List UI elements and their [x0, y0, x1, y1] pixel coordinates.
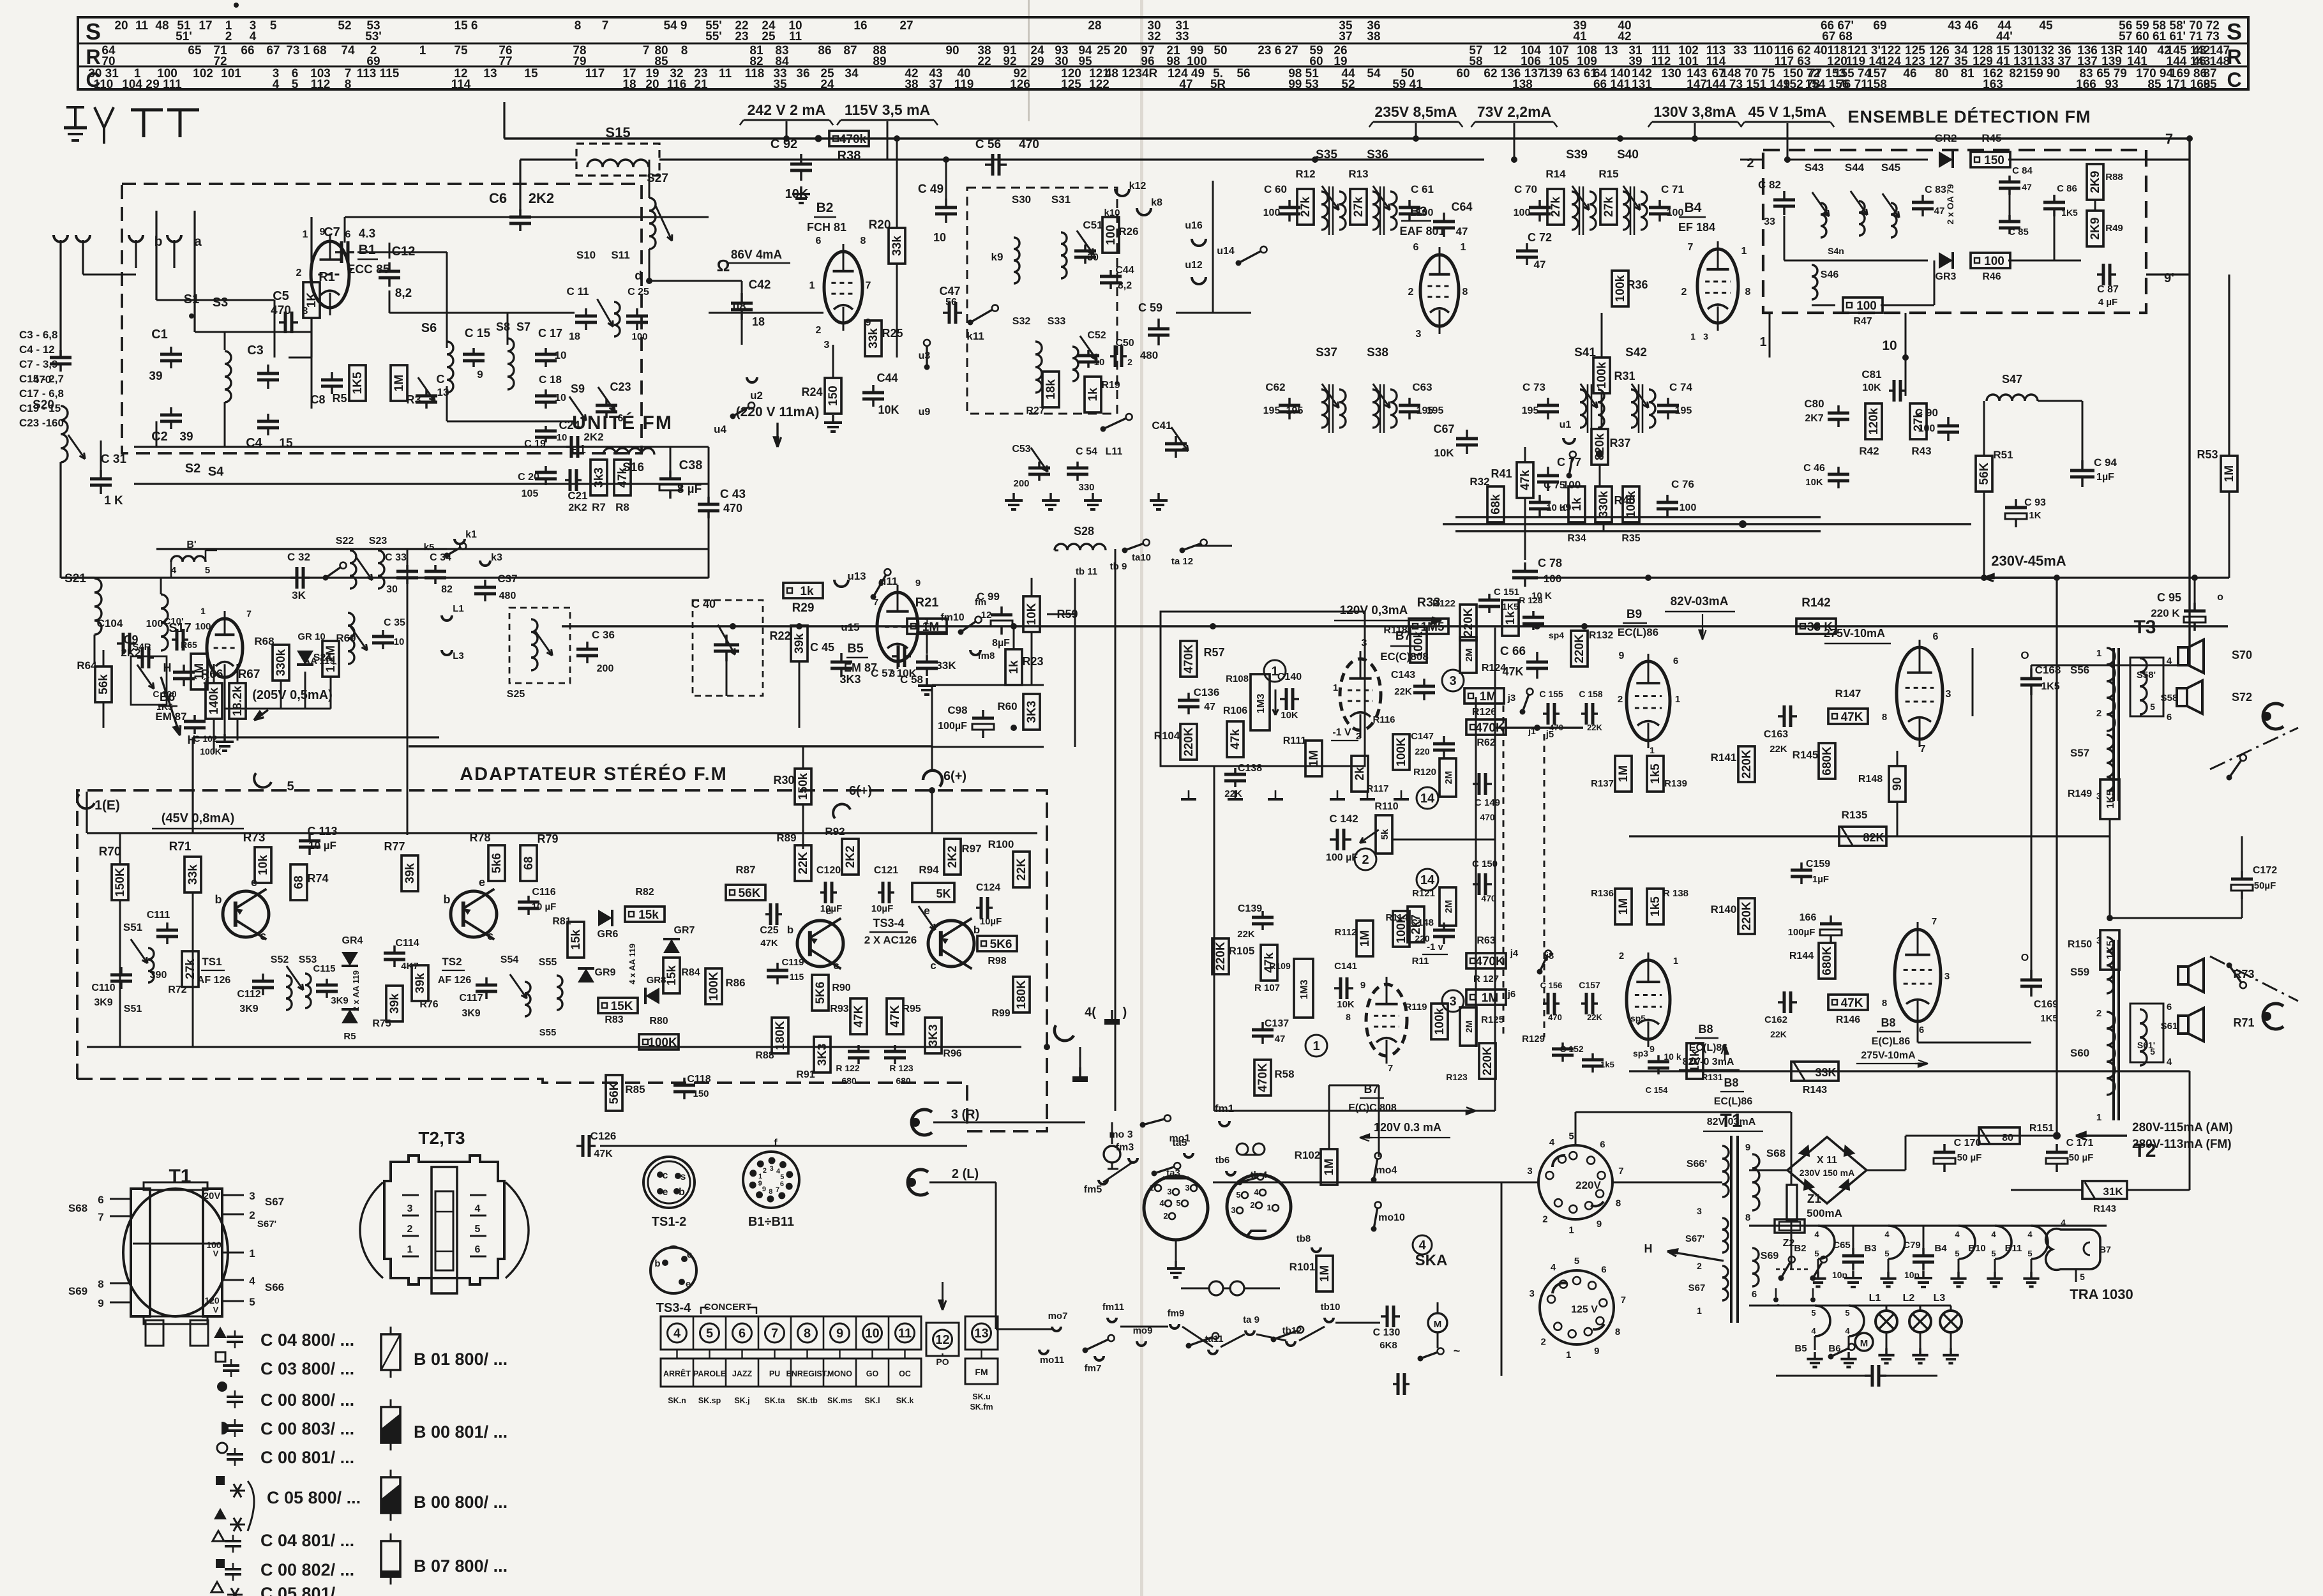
svg-text:2: 2 [225, 30, 232, 43]
svg-text:47: 47 [2022, 182, 2032, 192]
svg-text:46 148: 46 148 [2193, 55, 2230, 68]
svg-text:C 70: C 70 [1514, 183, 1537, 195]
svg-text:C3: C3 [247, 343, 264, 358]
svg-text:C 54: C 54 [1076, 446, 1097, 457]
svg-text:1K5: 1K5 [1502, 601, 1519, 612]
svg-text:1: 1 [1312, 1039, 1319, 1053]
svg-text:119 14: 119 14 [1846, 55, 1882, 68]
coil S24 [348, 613, 354, 664]
svg-text:R94: R94 [919, 864, 939, 876]
svg-text:7: 7 [771, 1327, 778, 1341]
svg-text:220K: 220K [1573, 634, 1586, 663]
cap C83 47 [1921, 195, 1924, 202]
svg-text:c: c [687, 1249, 692, 1260]
svg-text:41: 41 [1573, 30, 1587, 43]
svg-text:105: 105 [1549, 55, 1569, 68]
svg-text:37: 37 [929, 78, 942, 91]
svg-text:18: 18 [569, 331, 580, 342]
svg-text:mo4: mo4 [1376, 1165, 1397, 1176]
svg-text:EC(L)86: EC(L)86 [1714, 1096, 1753, 1107]
svg-text:S57: S57 [2070, 747, 2089, 759]
svg-text:330k: 330k [274, 649, 288, 676]
svg-text:12: 12 [981, 610, 992, 621]
resistor R43 27k [1910, 403, 1927, 439]
svg-text:7: 7 [1618, 1166, 1623, 1177]
svg-text:3 (R): 3 (R) [951, 1108, 979, 1122]
svg-text:3: 3 [1449, 995, 1456, 1009]
svg-text:9: 9 [1360, 980, 1365, 991]
cap C46 10K [1837, 467, 1840, 474]
svg-text:S28: S28 [1074, 525, 1094, 538]
svg-text:100k: 100k [1614, 275, 1627, 302]
svg-text:1: 1 [1673, 956, 1678, 967]
resistor R83 15K [598, 998, 638, 1013]
svg-text:3: 3 [770, 1165, 774, 1173]
pot R94 5K [912, 883, 954, 902]
svg-text:2K9: 2K9 [2089, 218, 2102, 240]
svg-text:B11: B11 [2005, 1243, 2022, 1254]
svg-text:36: 36 [796, 67, 809, 80]
svg-text:27k: 27k [184, 959, 197, 979]
svg-text:R64: R64 [77, 659, 97, 672]
svg-text:R142: R142 [1801, 596, 1830, 610]
capacitor C49 10 [945, 199, 947, 207]
svg-text:R27: R27 [1026, 405, 1044, 416]
svg-text:120k: 120k [1867, 407, 1881, 435]
svg-text:82V-0 3mA: 82V-0 3mA [1683, 1057, 1734, 1067]
svg-text:4.3: 4.3 [359, 227, 375, 241]
svg-text:47K: 47K [1841, 997, 1863, 1010]
svg-text:b: b [787, 924, 793, 936]
resistor R127 1M [1466, 990, 1506, 1005]
wires output section [1943, 693, 2031, 694]
capacitor C8 [331, 372, 333, 380]
output tube B9 ECL86 [1897, 647, 1943, 739]
svg-text:21: 21 [694, 78, 708, 91]
svg-text:3: 3 [1697, 1206, 1702, 1216]
resistor R41 47k [1517, 462, 1533, 498]
svg-text:R12: R12 [1295, 168, 1315, 180]
svg-text:15k: 15k [638, 908, 659, 922]
resistor R111 1M [1305, 741, 1322, 776]
svg-text:69: 69 [366, 55, 380, 68]
svg-text:5: 5 [2027, 1249, 2032, 1258]
svg-text:): ) [1123, 1005, 1127, 1020]
svg-text:470: 470 [33, 373, 51, 386]
svg-text:10 K: 10 K [1546, 502, 1567, 513]
coils S8 S7 [507, 338, 514, 389]
svg-text:100K: 100K [707, 972, 721, 1001]
svg-text:1: 1 [2096, 1112, 2101, 1123]
svg-text:C 00 803/ ...: C 00 803/ ... [260, 1419, 354, 1438]
svg-text:42: 42 [1618, 30, 1631, 43]
svg-text:56K: 56K [739, 887, 761, 900]
svg-text:s: s [680, 1171, 686, 1182]
svg-text:106: 106 [1521, 55, 1541, 68]
svg-text:R71: R71 [2233, 1016, 2254, 1029]
svg-text:b: b [654, 1258, 660, 1269]
svg-text:10K: 10K [878, 403, 899, 416]
svg-text:120: 120 [204, 1295, 220, 1306]
svg-text:220: 220 [1415, 746, 1430, 757]
svg-text:23: 23 [735, 30, 748, 43]
svg-text:40: 40 [1814, 44, 1827, 57]
svg-text:1k5: 1k5 [1649, 764, 1662, 784]
svg-text:100: 100 [1680, 502, 1697, 513]
resistor R7 3k3 [590, 460, 607, 495]
svg-text:1: 1 [407, 1244, 413, 1255]
cap C75 10K [1538, 495, 1541, 502]
svg-text:TS1-2: TS1-2 [652, 1215, 686, 1229]
svg-text:125 V: 125 V [1571, 1304, 1598, 1315]
pushbutton 12 PO cell [926, 1323, 959, 1356]
cap C137 47 [1261, 1022, 1264, 1030]
svg-text:20V: 20V [204, 1191, 221, 1201]
svg-text:68k: 68k [1489, 494, 1503, 515]
svg-text:S54: S54 [500, 954, 519, 965]
cap C151 1K5 [1488, 594, 1491, 600]
cap C115 3K9 [326, 979, 328, 985]
dashed box around C40 [693, 600, 763, 696]
svg-text:EAF 801: EAF 801 [1399, 225, 1445, 237]
svg-text:220K: 220K [1214, 942, 1228, 971]
svg-text:B6: B6 [1828, 1343, 1840, 1354]
resistor R95 47K [887, 998, 903, 1034]
svg-text:5: 5 [1176, 1198, 1180, 1208]
svg-text:R74: R74 [307, 872, 328, 885]
svg-text:5: 5 [249, 1296, 255, 1308]
svg-text:470K: 470K [1256, 1063, 1270, 1092]
resistor R150 1K5 [2100, 930, 2119, 970]
svg-text:1k: 1k [1504, 611, 1517, 625]
svg-text:SK.ms: SK.ms [827, 1396, 852, 1405]
DIN socket tape [1227, 1175, 1291, 1238]
svg-text:S47: S47 [2002, 373, 2022, 386]
coil S3 S4 input [225, 351, 231, 402]
resistor R82 15k [625, 907, 665, 922]
resistor R33 1M5 [1409, 619, 1448, 634]
svg-text:100k: 100k [1433, 1007, 1447, 1035]
cap C162 22K [1778, 1001, 1784, 1004]
svg-text:C137: C137 [1265, 1018, 1289, 1029]
svg-text:u8: u8 [732, 300, 746, 313]
svg-text:T3: T3 [2133, 617, 2156, 638]
mains double switch [1778, 1276, 1784, 1281]
speaker S70 [2178, 647, 2188, 665]
svg-text:33k: 33k [867, 328, 880, 349]
svg-text:1µF: 1µF [1812, 874, 1829, 885]
resistor R47 100 [1843, 297, 1883, 313]
svg-text:C143: C143 [1391, 670, 1415, 681]
headphone jack right top [2263, 704, 2283, 729]
svg-text:220K: 220K [1740, 901, 1754, 931]
svg-text:3: 3 [1703, 331, 1708, 342]
long verticals right margin [2188, 139, 2190, 665]
svg-text:C 84: C 84 [2012, 165, 2033, 176]
resistor R37 820k [1591, 429, 1608, 465]
svg-text:102: 102 [193, 67, 213, 80]
svg-text:2: 2 [816, 325, 822, 336]
svg-text:L11: L11 [1106, 446, 1123, 457]
svg-text:C 05 801/ ...: C 05 801/ ... [260, 1584, 354, 1596]
svg-text:C44: C44 [876, 372, 898, 384]
svg-text:230V 150 mA: 230V 150 mA [1800, 1168, 1854, 1178]
svg-text:R63: R63 [1477, 935, 1495, 946]
svg-text:AF 126: AF 126 [438, 975, 472, 986]
svg-text:9: 9 [915, 578, 921, 589]
svg-text:150: 150 [827, 386, 840, 406]
left lead-in wires [59, 268, 61, 358]
svg-text:39: 39 [1628, 55, 1642, 68]
svg-text:B9: B9 [1627, 608, 1642, 621]
svg-text:10 µF: 10 µF [532, 901, 557, 912]
svg-text:84: 84 [775, 55, 789, 68]
resistor R98 5K6 [977, 936, 1017, 951]
svg-text:k1: k1 [465, 529, 477, 540]
svg-text:b: b [215, 893, 222, 906]
svg-text:R125: R125 [1481, 1014, 1504, 1025]
svg-text:82: 82 [441, 584, 453, 595]
cap C124 10uF [976, 907, 981, 909]
svg-text:u1: u1 [1560, 419, 1572, 430]
svg-text:69: 69 [1873, 19, 1886, 33]
capacitor C1 39 [170, 347, 172, 354]
resistor R40 330k [1595, 486, 1612, 522]
long wire right margin [2189, 139, 2190, 160]
svg-text:R 107: R 107 [1254, 982, 1280, 993]
svg-text:120: 120 [1827, 55, 1847, 68]
svg-text:4: 4 [673, 1327, 681, 1341]
resistor R79 68 [520, 845, 537, 881]
svg-text:O: O [2021, 952, 2029, 963]
internal wires FM box [156, 299, 274, 301]
svg-text:10K: 10K [1862, 382, 1881, 393]
svg-text:C 56: C 56 [975, 138, 1001, 151]
resistor R135 82K [1839, 827, 1886, 846]
svg-text:B5: B5 [847, 642, 864, 656]
node 2 wire down [1740, 159, 1763, 161]
svg-text:6: 6 [780, 1180, 784, 1188]
svg-text:TS1: TS1 [202, 956, 222, 968]
capacitor C92 10K [800, 154, 802, 164]
svg-text:S22: S22 [336, 536, 354, 546]
svg-text:137: 137 [2077, 55, 2098, 68]
wires IF1 [1314, 160, 1316, 181]
svg-text:5k6: 5k6 [490, 853, 504, 873]
svg-text:k3: k3 [491, 552, 502, 563]
svg-text:e: e [686, 1279, 691, 1290]
svg-text:R111: R111 [1283, 735, 1307, 746]
svg-text:2: 2 [1408, 287, 1414, 297]
svg-text:22K: 22K [1015, 858, 1028, 880]
svg-text:k12: k12 [1129, 181, 1146, 192]
svg-text:R118: R118 [1383, 625, 1407, 636]
capacitor C37 480 [484, 580, 486, 587]
svg-text:R51: R51 [1993, 449, 2013, 461]
resistor R36 100k [1612, 271, 1628, 306]
svg-text:B8: B8 [1698, 1023, 1713, 1035]
svg-text:30: 30 [386, 584, 398, 595]
svg-text:4: 4 [1549, 1137, 1555, 1148]
svg-text:82V-03mA: 82V-03mA [1671, 595, 1729, 608]
svg-text:EF 184: EF 184 [1678, 221, 1715, 234]
cap C172 50uF [2241, 871, 2243, 879]
svg-text:R83: R83 [605, 1014, 623, 1025]
svg-text:7: 7 [866, 280, 871, 291]
svg-text:60: 60 [1309, 55, 1323, 68]
svg-text:C159: C159 [1806, 859, 1830, 870]
svg-text:11: 11 [135, 19, 149, 33]
svg-text:k8: k8 [1151, 197, 1162, 208]
T1 heater S69 [1752, 1248, 1759, 1286]
svg-text:48 1234R: 48 1234R [1105, 67, 1158, 80]
svg-text:C 86: C 86 [2057, 183, 2077, 194]
svg-text:R: R [86, 45, 100, 68]
svg-text:B2: B2 [1794, 1243, 1806, 1254]
dipole T symbols [131, 109, 163, 112]
svg-text:R135: R135 [1842, 809, 1868, 821]
cap C136 47 [1187, 693, 1190, 700]
T2T3 taps right [470, 1194, 486, 1196]
svg-text:C42: C42 [749, 278, 771, 292]
svg-text:100: 100 [631, 331, 647, 342]
svg-text:9: 9 [320, 227, 326, 237]
svg-text:195: 195 [1522, 405, 1539, 416]
svg-text:S35: S35 [1316, 148, 1337, 162]
svg-text:1µF: 1µF [2096, 472, 2114, 483]
svg-text:57 60 61 61' 71 73: 57 60 61 61' 71 73 [2119, 30, 2220, 43]
svg-text:58: 58 [1469, 55, 1482, 68]
svg-text:131: 131 [2013, 55, 2034, 68]
headphone jack right bottom [2263, 1004, 2283, 1029]
svg-text:30: 30 [1055, 55, 1068, 68]
svg-text:1k: 1k [800, 585, 814, 598]
svg-text:127: 127 [1929, 55, 1950, 68]
pot R110 5k [1376, 815, 1392, 854]
svg-text:B3: B3 [1410, 204, 1427, 219]
resistor R141 220K [1738, 746, 1755, 782]
svg-text:C67: C67 [1433, 423, 1454, 435]
svg-text:235V 8,5mA: 235V 8,5mA [1374, 103, 1457, 120]
svg-text:1M3: 1M3 [1256, 693, 1267, 713]
svg-text:C 90: C 90 [1915, 407, 1938, 419]
switch near jack top [2227, 775, 2232, 781]
svg-text:100K: 100K [1395, 737, 1408, 767]
cap C147 220 [1443, 736, 1445, 744]
svg-text:15 6: 15 6 [455, 19, 478, 33]
cap 10k C154 [1657, 1055, 1660, 1062]
resistor R24 150 [825, 378, 841, 414]
svg-text:R47: R47 [1853, 316, 1872, 327]
cap C77 100 [1547, 467, 1549, 476]
svg-text:1k5: 1k5 [1649, 896, 1662, 917]
svg-text:C 33: C 33 [385, 552, 407, 563]
svg-text:33k: 33k [891, 236, 904, 256]
coil S47 [1987, 395, 2038, 401]
coil S17 [161, 594, 168, 651]
svg-text:~: ~ [1454, 1344, 1461, 1357]
svg-text:150K: 150K [114, 868, 127, 897]
svg-text:1M: 1M [1307, 750, 1321, 767]
cap R123 680 [894, 1045, 896, 1051]
svg-text:C 77: C 77 [1557, 456, 1581, 469]
svg-text:S33: S33 [1048, 316, 1066, 327]
resistor R75 39k [386, 986, 403, 1021]
resistor R126 1M [1464, 688, 1504, 704]
cap C10' 100 [172, 638, 177, 641]
svg-text:S42: S42 [1625, 346, 1647, 359]
svg-text:470: 470 [723, 502, 742, 515]
svg-text:9: 9 [762, 1186, 766, 1193]
svg-text:166: 166 [2076, 78, 2096, 91]
svg-text:101: 101 [1678, 55, 1699, 68]
svg-text:B4: B4 [1934, 1243, 1947, 1254]
svg-text:B2: B2 [816, 200, 834, 215]
svg-text:2: 2 [1681, 287, 1687, 297]
cap C67 10K [1466, 430, 1468, 439]
svg-text:1: 1 [249, 1247, 255, 1260]
svg-text:100: 100 [1984, 255, 2004, 268]
svg-text:C79: C79 [1903, 1240, 1921, 1251]
svg-text:2: 2 [763, 1167, 767, 1175]
svg-text:R148: R148 [1858, 774, 1883, 785]
pushbutton label row [661, 1359, 921, 1387]
capacitor C2 39 [170, 407, 172, 415]
svg-text:150: 150 [693, 1088, 709, 1099]
svg-text:SK.sp: SK.sp [698, 1396, 721, 1405]
capacitor C47 56 [943, 312, 949, 314]
svg-text:S51: S51 [123, 921, 142, 933]
svg-text:B4: B4 [1685, 200, 1702, 215]
svg-text:1k: 1k [1007, 660, 1021, 674]
resistor R112 1M [1357, 921, 1373, 956]
svg-text:8: 8 [1615, 1327, 1620, 1337]
triode B1 ECC85 [311, 241, 349, 308]
wires to EM87 [213, 664, 215, 683]
resistor R120 2M [1440, 758, 1456, 797]
svg-text:23 6 27: 23 6 27 [1258, 44, 1298, 57]
svg-text:C65: C65 [1833, 1240, 1851, 1251]
tube B7a ECC808 dashed [1340, 659, 1381, 730]
svg-text:275V-10mA: 275V-10mA [1824, 627, 1885, 640]
svg-text:1: 1 [1461, 242, 1466, 253]
resistor R49 2K9 [2087, 211, 2103, 246]
svg-text:33: 33 [1764, 216, 1775, 227]
svg-text:1: 1 [1675, 694, 1680, 705]
cap C82 33 [1783, 191, 1785, 200]
svg-text:R40: R40 [1614, 494, 1635, 507]
svg-text:1: 1 [303, 229, 308, 240]
svg-text:R143: R143 [1803, 1085, 1827, 1095]
svg-text:9': 9' [2164, 271, 2174, 285]
svg-text:54 9: 54 9 [664, 19, 688, 33]
terminals u16 u12 u14 [1192, 239, 1206, 246]
svg-text:C 00 800/ ...: C 00 800/ ... [260, 1390, 354, 1410]
svg-text:10: 10 [865, 1327, 879, 1341]
svg-text:41: 41 [1996, 55, 2010, 68]
svg-text:EM 87: EM 87 [844, 661, 877, 674]
resistor R139 1k5 pair [1647, 756, 1664, 792]
svg-text:SK.n: SK.n [668, 1396, 686, 1405]
resistor R53 1M [2221, 456, 2237, 492]
svg-text:100: 100 [1563, 479, 1581, 491]
main center vertical rails [1475, 697, 1477, 1047]
resistor R145 680K [1819, 743, 1835, 779]
svg-text:220K: 220K [1462, 608, 1475, 637]
svg-text:R120: R120 [1413, 767, 1436, 778]
svg-text:S30: S30 [1012, 193, 1031, 206]
svg-text:R145: R145 [1793, 749, 1819, 761]
